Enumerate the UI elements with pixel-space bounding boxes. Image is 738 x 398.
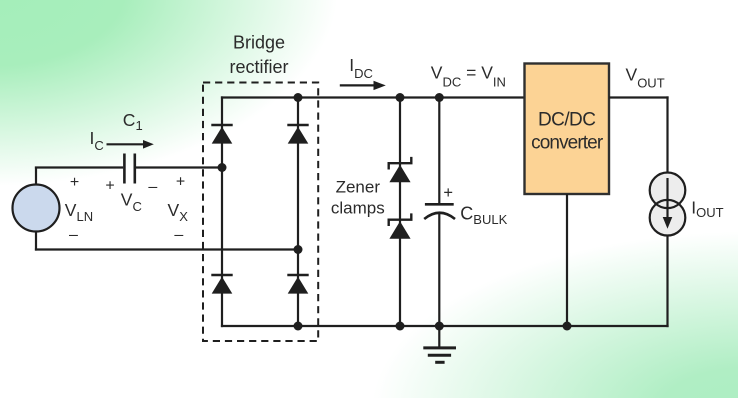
DC/DC converter block U1 bbox=[525, 64, 610, 195]
wire current source to bottom bus bbox=[666, 236, 668, 328]
svg-text:converter: converter bbox=[531, 132, 604, 153]
junction dot bottom bus at ground branch bbox=[435, 322, 444, 331]
svg-text:–: – bbox=[69, 227, 78, 244]
wire DC/DC bottom pin bbox=[566, 194, 568, 326]
svg-text:Bridge: Bridge bbox=[233, 32, 285, 52]
ground bbox=[423, 326, 456, 362]
junction dot top bus at bridge right column bbox=[294, 93, 303, 102]
svg-text:VOUT: VOUT bbox=[626, 65, 665, 91]
wire bridge bottom rail bbox=[221, 325, 298, 327]
diode D2 top-right bbox=[287, 125, 308, 144]
zener diode Z1 bbox=[389, 157, 412, 182]
svg-text:IC: IC bbox=[90, 128, 104, 153]
junction dot bridge right with source bottom wire bbox=[294, 245, 303, 254]
svg-text:C1: C1 bbox=[123, 110, 143, 133]
wire top bus bridge to DC/DC converter bbox=[298, 96, 525, 98]
zener diode Z2 bbox=[389, 213, 412, 238]
wire CBULK branch lower bbox=[438, 212, 440, 327]
svg-text:rectifier: rectifier bbox=[229, 57, 288, 77]
wire DC/DC output to corner bbox=[609, 96, 669, 98]
junction dot top bus at zener branch bbox=[396, 93, 405, 102]
svg-text:+: + bbox=[443, 184, 453, 202]
wire CBULK branch upper bbox=[438, 98, 440, 205]
junction dot bottom bus at zener branch bbox=[396, 322, 405, 331]
wire bridge right column bbox=[297, 96, 299, 327]
svg-text:Zener: Zener bbox=[336, 178, 381, 197]
diode D1 top-left bbox=[211, 125, 232, 144]
arrow IDC current direction bbox=[340, 81, 386, 90]
junction dot top bus at CBULK branch bbox=[435, 93, 444, 102]
svg-text:VLN: VLN bbox=[65, 200, 93, 224]
svg-text:CBULK: CBULK bbox=[460, 204, 507, 228]
svg-text:+: + bbox=[70, 174, 79, 191]
svg-text:VX: VX bbox=[168, 200, 189, 224]
svg-text:–: – bbox=[174, 227, 183, 244]
ac line source VLN bbox=[13, 185, 60, 232]
wire source top stub bbox=[35, 167, 37, 186]
svg-text:+: + bbox=[176, 174, 185, 191]
svg-text:IDC: IDC bbox=[349, 55, 373, 81]
svg-text:IOUT: IOUT bbox=[691, 198, 723, 221]
arrow IC current direction bbox=[107, 140, 154, 149]
junction dot bottom bus at bridge right column bbox=[294, 322, 303, 331]
diode D4 bottom-right bbox=[287, 275, 308, 294]
svg-text:–: – bbox=[148, 179, 157, 196]
wire bridge top rail bbox=[221, 96, 298, 98]
wire zener branch bbox=[399, 98, 401, 328]
wire source bottom stub bbox=[35, 231, 37, 251]
capacitor CBULK bbox=[424, 204, 455, 219]
wire C1 right plate to bridge left column bbox=[136, 166, 223, 168]
wire output down to current source bbox=[666, 96, 668, 173]
wire top from source to C1 left plate bbox=[35, 166, 123, 168]
capacitor C1 bbox=[124, 154, 134, 184]
svg-text:+: + bbox=[105, 178, 114, 195]
wire bottom bus bbox=[298, 325, 669, 327]
wire bridge left column bbox=[221, 96, 223, 327]
current source IOUT bbox=[650, 173, 686, 236]
junction dot bottom bus at DC/DC return bbox=[563, 322, 572, 331]
diode D3 bottom-left bbox=[211, 275, 232, 294]
bridge rectifier dashed box bbox=[203, 83, 318, 342]
junction dot bridge left with C1 wire bbox=[218, 163, 227, 172]
wire source bottom to bridge right column bbox=[35, 248, 299, 250]
svg-text:VC: VC bbox=[121, 190, 142, 215]
svg-text:DC/DC: DC/DC bbox=[538, 110, 595, 131]
svg-text:clamps: clamps bbox=[331, 199, 385, 218]
svg-text:VDC = VIN: VDC = VIN bbox=[431, 62, 506, 89]
